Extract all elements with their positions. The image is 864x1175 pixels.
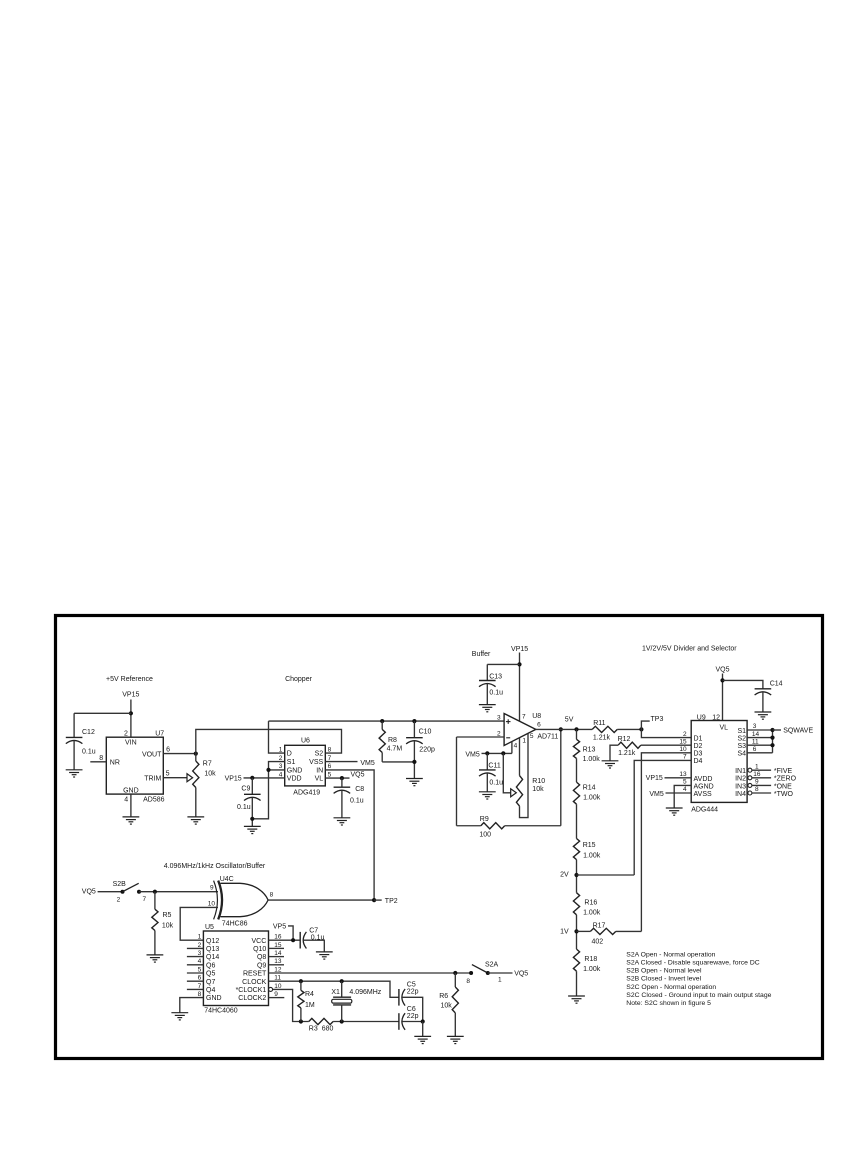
- svg-text:VQ5: VQ5: [514, 971, 528, 978]
- svg-text:6: 6: [753, 746, 757, 753]
- svg-text:CLOCK: CLOCK: [242, 979, 266, 986]
- node R5 junction: [153, 890, 157, 894]
- svg-text:3: 3: [497, 715, 501, 722]
- node VL/C8 junction: [340, 776, 344, 780]
- svg-text:1: 1: [198, 934, 202, 941]
- svg-text:VQ5: VQ5: [351, 771, 365, 778]
- svg-text:TP3: TP3: [651, 716, 664, 723]
- svg-text:R12: R12: [618, 736, 631, 743]
- wire U9 D3 to 1V: [641, 753, 691, 932]
- svg-text:IN2: IN2: [735, 776, 746, 783]
- wire U9 D4 to 2V: [634, 760, 691, 875]
- wire to C14: [723, 680, 763, 688]
- svg-text:1: 1: [279, 747, 283, 754]
- svg-text:AD586: AD586: [143, 797, 165, 804]
- wire 2V to D4 leg: [577, 874, 635, 876]
- minus symbol: [506, 737, 510, 739]
- svg-text:GND: GND: [123, 787, 139, 794]
- svg-text:7: 7: [683, 754, 687, 761]
- wire U6 IN down to TP2: [325, 770, 374, 900]
- svg-text:5: 5: [530, 733, 534, 740]
- node C6/C5 junction: [421, 1019, 425, 1023]
- svg-text:9: 9: [755, 779, 759, 786]
- svg-text:5: 5: [683, 779, 687, 786]
- wire U5 GND pin to ground: [180, 998, 204, 1013]
- svg-text:*ONE: *ONE: [774, 783, 792, 790]
- svg-text:C8: C8: [355, 786, 364, 793]
- wire to C12: [74, 712, 131, 714]
- wire feedback left leg: [456, 737, 458, 826]
- node R4 top junction: [299, 979, 303, 983]
- svg-text:10k: 10k: [441, 1003, 453, 1010]
- svg-text:4.7M: 4.7M: [387, 745, 403, 752]
- svg-text:0.1u: 0.1u: [489, 779, 503, 786]
- svg-text:0.1u: 0.1u: [82, 749, 96, 756]
- *CLOCK1 bubble: [269, 987, 273, 991]
- ground U5: [171, 1013, 188, 1020]
- wire S2 stub: [747, 737, 772, 739]
- svg-text:IN4: IN4: [735, 791, 746, 798]
- svg-text:D2: D2: [694, 743, 703, 750]
- svg-text:VM5: VM5: [360, 760, 375, 767]
- svg-text:8: 8: [328, 747, 332, 754]
- wire U6 GND pin: [269, 769, 285, 771]
- wire TRIM to R7 wiper: [163, 777, 187, 779]
- svg-text:Q4: Q4: [206, 987, 215, 994]
- svg-text:R6: R6: [439, 993, 448, 1000]
- wire S2B to XOR pin9: [139, 891, 218, 893]
- wire VQ5 to U9 VL pin12: [722, 674, 724, 721]
- svg-text:ADG419: ADG419: [293, 790, 320, 797]
- svg-text:74HC86: 74HC86: [222, 921, 248, 928]
- resistor R7 10k: [195, 754, 197, 761]
- IC U6 ADG419 box: [285, 745, 326, 786]
- svg-text:Buffer: Buffer: [472, 651, 491, 658]
- svg-text:9: 9: [210, 885, 214, 892]
- node C10/R8 gnd junction: [412, 760, 416, 764]
- svg-text:S2B Closed - Invert level: S2B Closed - Invert level: [626, 976, 701, 983]
- svg-text:VL: VL: [315, 776, 324, 783]
- testpoint TP3: [641, 721, 649, 729]
- svg-text:VP15: VP15: [122, 692, 139, 699]
- resistor R15 1.00k: [573, 839, 579, 860]
- svg-text:S1: S1: [737, 728, 746, 735]
- ground C13: [479, 705, 496, 712]
- crystal X1 4.096MHz: [341, 981, 343, 997]
- svg-text:10k: 10k: [204, 771, 216, 778]
- node C9/S1 gnd junction: [250, 817, 254, 821]
- svg-text:5: 5: [166, 770, 170, 777]
- svg-text:4.096MHz/1kHz Oscillator/Buffe: 4.096MHz/1kHz Oscillator/Buffer: [164, 863, 266, 870]
- svg-text:U5: U5: [205, 924, 214, 931]
- trimmer R10 10k pins 1-5: [519, 738, 521, 776]
- capacitor C8 0.1u: [341, 778, 343, 787]
- resistor R4 1M: [300, 981, 302, 990]
- svg-text:AVDD: AVDD: [694, 776, 713, 783]
- svg-text:VL: VL: [720, 725, 729, 732]
- svg-text:R11: R11: [593, 720, 605, 727]
- svg-text:S2: S2: [315, 751, 324, 758]
- capacitor C7 0.1u: [299, 932, 301, 949]
- svg-text:CLOCK2: CLOCK2: [238, 995, 266, 1002]
- svg-text:R18: R18: [584, 956, 597, 963]
- capacitor C14: [755, 688, 772, 690]
- node S2 junction: [770, 736, 774, 740]
- node bus/C10 junction: [412, 719, 416, 723]
- node VM5/C11 junction: [485, 751, 489, 755]
- node SQWAVE junction: [770, 728, 774, 732]
- svg-text:C9: C9: [241, 786, 250, 793]
- svg-text:402: 402: [592, 938, 604, 945]
- svg-text:3: 3: [279, 763, 283, 770]
- svg-text:NR: NR: [110, 759, 120, 766]
- svg-text:Q13: Q13: [206, 946, 219, 953]
- svg-text:VOUT: VOUT: [142, 752, 162, 759]
- wire U8 output: [536, 728, 592, 730]
- svg-text:1.00k: 1.00k: [583, 756, 601, 763]
- node bus/R8 junction: [380, 719, 384, 723]
- node 2V junction: [574, 873, 578, 877]
- wire VOUT: [163, 753, 196, 755]
- wire VP15 to AVDD: [665, 777, 692, 779]
- IN2 bubble and stub: [748, 776, 752, 780]
- svg-text:R3: R3: [309, 1026, 318, 1033]
- svg-text:8: 8: [99, 755, 103, 762]
- wire VP15 to U6 VDD: [244, 777, 285, 779]
- svg-text:VM5: VM5: [465, 751, 480, 758]
- svg-text:7: 7: [522, 714, 526, 721]
- svg-text:S2A: S2A: [485, 962, 499, 969]
- op-amp U8 AD711 triangle: [504, 714, 536, 746]
- svg-text:D1: D1: [694, 735, 703, 742]
- capacitor C9 0.1u: [251, 778, 253, 794]
- svg-text:VQ5: VQ5: [82, 888, 96, 895]
- svg-text:Q10: Q10: [253, 946, 266, 953]
- resistor R12 1.21k: [641, 744, 691, 746]
- svg-text:C6: C6: [407, 1006, 416, 1013]
- svg-text:VSS: VSS: [309, 759, 323, 766]
- svg-text:1M: 1M: [305, 1002, 315, 1009]
- capacitor C11 0.1u: [486, 753, 488, 770]
- resistor R8 4.7M: [381, 721, 383, 729]
- svg-text:12: 12: [712, 714, 720, 721]
- svg-text:C10: C10: [419, 729, 432, 736]
- svg-text:S2C Closed - Ground input to m: S2C Closed - Ground input to main output…: [626, 992, 771, 999]
- ground R5: [147, 955, 164, 962]
- node VP5/VCC junction: [291, 938, 295, 942]
- svg-text:7: 7: [143, 896, 147, 903]
- svg-text:Q6: Q6: [206, 962, 215, 969]
- wire TP3 to U9 D1: [641, 729, 691, 737]
- svg-text:0.1u: 0.1u: [311, 935, 325, 942]
- svg-text:4.096MHz: 4.096MHz: [349, 989, 381, 996]
- ground C9: [244, 826, 261, 833]
- svg-text:1.21k: 1.21k: [618, 750, 636, 757]
- node VP15/C13 junction: [517, 662, 521, 666]
- svg-text:4: 4: [124, 797, 128, 804]
- svg-text:*CLOCK1: *CLOCK1: [236, 987, 267, 994]
- svg-text:S2A Closed - Disable squarewav: S2A Closed - Disable squarewave, force D…: [626, 960, 759, 967]
- ground R6: [447, 1036, 464, 1043]
- svg-text:ADG444: ADG444: [691, 807, 718, 814]
- resistor R13 1.00k: [576, 729, 578, 739]
- IN3 bubble and stub: [748, 783, 752, 787]
- svg-text:1.00k: 1.00k: [583, 853, 601, 860]
- U5 right stubs Q10 Q8 Q9: [269, 947, 285, 949]
- svg-text:U9: U9: [697, 714, 706, 721]
- resistor R5 10k: [154, 892, 156, 910]
- svg-text:S2A Open - Normal operation: S2A Open - Normal operation: [626, 951, 715, 958]
- svg-text:VM5: VM5: [649, 791, 664, 798]
- svg-text:VP5: VP5: [273, 923, 286, 930]
- R10 wiper arrow: [511, 789, 517, 797]
- svg-text:X1: X1: [331, 989, 340, 996]
- svg-text:S2: S2: [737, 736, 746, 743]
- svg-text:1.00k: 1.00k: [583, 795, 601, 802]
- svg-text:Chopper: Chopper: [285, 676, 313, 683]
- svg-text:VP15: VP15: [225, 775, 242, 782]
- svg-text:100: 100: [479, 832, 491, 839]
- svg-text:R10: R10: [532, 778, 545, 785]
- svg-text:VP15: VP15: [646, 775, 663, 782]
- resistor R9 100: [457, 825, 481, 827]
- node X1 bottom junction: [340, 1019, 344, 1023]
- node TP2 junction: [372, 898, 376, 902]
- ground C6: [414, 1036, 431, 1043]
- node X1 top junction: [340, 979, 344, 983]
- svg-text:U6: U6: [301, 738, 310, 745]
- node feedback/output junction: [559, 727, 563, 731]
- svg-text:RESET: RESET: [243, 971, 267, 978]
- node VM5/wiper junction: [501, 751, 505, 755]
- svg-text:*ZERO: *ZERO: [774, 776, 797, 783]
- svg-text:13: 13: [679, 771, 687, 778]
- wire U6 VL to VQ5: [325, 777, 349, 779]
- svg-text:10k: 10k: [532, 786, 544, 793]
- svg-text:1: 1: [755, 763, 759, 770]
- svg-text:0.1u: 0.1u: [350, 798, 364, 805]
- svg-text:AVSS: AVSS: [694, 791, 712, 798]
- ground R7: [187, 817, 204, 824]
- svg-text:U8: U8: [532, 713, 541, 720]
- wire chopper output bus to buffer + input: [269, 720, 505, 722]
- svg-text:AD711: AD711: [537, 733, 558, 740]
- svg-text:R5: R5: [163, 912, 172, 919]
- wire VM5 to AVSS: [666, 792, 692, 794]
- node S3 junction: [770, 743, 774, 747]
- svg-text:D3: D3: [694, 751, 703, 758]
- svg-text:C13: C13: [489, 673, 502, 680]
- wire CLOCK2 stub: [269, 997, 285, 999]
- svg-text:TP2: TP2: [385, 898, 398, 905]
- svg-text:Q7: Q7: [206, 979, 215, 986]
- node VOUT/R7: [194, 752, 198, 756]
- wire S2A to VQ5: [488, 972, 513, 974]
- ground C8: [334, 818, 351, 825]
- testpoint TP2 stub: [374, 899, 382, 901]
- ground R12: [602, 761, 619, 768]
- svg-text:16: 16: [753, 771, 761, 778]
- svg-text:VCC: VCC: [252, 938, 267, 945]
- wire RESET to S2A: [269, 972, 472, 974]
- IC U9 ADG444 box: [691, 721, 747, 803]
- wire VCC to C7: [269, 939, 301, 941]
- wire VQ5 to S2B: [98, 891, 123, 893]
- svg-text:C12: C12: [82, 729, 95, 736]
- svg-text:D4: D4: [694, 758, 703, 765]
- svg-text:GND: GND: [206, 995, 222, 1002]
- capacitor C12: [73, 713, 75, 737]
- svg-text:C14: C14: [770, 681, 783, 688]
- svg-text:0.1u: 0.1u: [489, 690, 503, 697]
- node TP3 junction: [639, 727, 643, 731]
- svg-text:GND: GND: [287, 767, 303, 774]
- svg-text:R14: R14: [583, 785, 596, 792]
- svg-text:S2B Open - Normal level: S2B Open - Normal level: [626, 968, 702, 975]
- IN1 bubble and stub: [748, 768, 752, 772]
- svg-text:1V: 1V: [560, 928, 569, 935]
- wire S3 stub: [747, 744, 772, 746]
- wire VP5 elbow: [288, 926, 293, 940]
- resistor R17 402: [577, 930, 591, 932]
- svg-text:*TWO: *TWO: [774, 791, 794, 798]
- ground C11: [479, 792, 496, 799]
- svg-text:S2B: S2B: [113, 881, 127, 888]
- wire S4 stub: [747, 752, 772, 754]
- svg-text:R13: R13: [583, 747, 596, 754]
- svg-text:2: 2: [279, 755, 283, 762]
- capacitor C6 22p: [398, 1013, 400, 1030]
- wire VM5 to U8 pin4: [482, 752, 512, 754]
- wire SQWAVE stub: [773, 729, 782, 731]
- svg-text:8: 8: [270, 892, 274, 899]
- IC U5 74HC4060 box: [203, 931, 268, 1006]
- resistor R16 1.00k: [573, 893, 579, 915]
- svg-text:Q14: Q14: [206, 954, 219, 961]
- svg-text:U4C: U4C: [220, 876, 234, 883]
- svg-text:74HC4060: 74HC4060: [204, 1007, 238, 1014]
- svg-text:22p: 22p: [407, 1013, 419, 1020]
- svg-text:14: 14: [752, 731, 760, 738]
- svg-text:IN1: IN1: [735, 768, 746, 775]
- border frame: [56, 616, 823, 1059]
- svg-text:11: 11: [752, 738, 759, 745]
- wire to C13: [487, 663, 519, 665]
- svg-text:5V: 5V: [565, 716, 574, 723]
- svg-text:1V/2V/5V Divider and Selector: 1V/2V/5V Divider and Selector: [642, 646, 737, 653]
- svg-text:2: 2: [497, 730, 501, 737]
- svg-text:2: 2: [117, 896, 121, 903]
- wire R10 wiper: [503, 753, 510, 792]
- wire U6 S1 to analog gnd bus: [252, 762, 284, 819]
- svg-text:VP15: VP15: [511, 646, 528, 653]
- svg-text:680: 680: [322, 1025, 334, 1032]
- wire *CLOCK1 to R3/C6: [273, 989, 309, 1021]
- svg-text:8: 8: [755, 786, 759, 793]
- wire feedback right leg: [560, 729, 562, 825]
- wire VOUT to U6 S2 (5V to chopper): [196, 729, 342, 753]
- svg-text:R4: R4: [305, 991, 314, 998]
- svg-text:C11: C11: [488, 763, 500, 770]
- svg-text:15: 15: [679, 738, 687, 745]
- pin 8 NR stub: [90, 761, 106, 763]
- resistor R11 1.21k: [592, 726, 617, 732]
- svg-text:Note: S2C shown in figure 5: Note: S2C shown in figure 5: [626, 1000, 711, 1007]
- svg-text:2: 2: [124, 731, 128, 738]
- ground U7: [123, 817, 140, 824]
- svg-text:VQ5: VQ5: [715, 666, 729, 673]
- svg-text:S1: S1: [287, 759, 296, 766]
- svg-text:1.21k: 1.21k: [593, 734, 611, 741]
- svg-text:AGND: AGND: [694, 783, 714, 790]
- op IC U7 AD586 box: [106, 737, 163, 794]
- node 1V junction: [574, 929, 578, 933]
- svg-text:Q5: Q5: [206, 971, 215, 978]
- wire C6 to ground: [422, 1022, 424, 1037]
- wire VP15 to U8 pin7: [519, 653, 521, 722]
- ground C10: [406, 779, 423, 786]
- ground C7: [316, 952, 333, 959]
- svg-text:10: 10: [679, 746, 687, 753]
- node 5V junction: [574, 727, 578, 731]
- resistor R18 1.00k: [573, 949, 579, 971]
- svg-text:VDD: VDD: [287, 776, 302, 783]
- svg-text:TRIM: TRIM: [144, 775, 161, 782]
- svg-text:8: 8: [466, 978, 470, 985]
- wire CLOCK to C5: [269, 981, 399, 997]
- resistor R6 10k: [454, 973, 456, 987]
- U5 left stubs pins 2-7: [187, 947, 204, 949]
- svg-text:6: 6: [166, 747, 170, 754]
- node R6 junction: [453, 971, 457, 975]
- svg-text:R9: R9: [480, 816, 489, 823]
- svg-text:S3: S3: [737, 743, 746, 750]
- svg-text:D: D: [287, 751, 292, 758]
- wire R8 bottom to C10: [382, 761, 414, 763]
- wire U7 GND: [130, 794, 132, 817]
- svg-text:22p: 22p: [407, 988, 419, 995]
- ground AGND: [666, 808, 683, 815]
- svg-text:R16: R16: [584, 900, 597, 907]
- wire U6 VSS to VM5: [325, 761, 357, 763]
- svg-text:1.00k: 1.00k: [583, 910, 601, 917]
- ground C12: [66, 770, 83, 777]
- svg-text:0.1u: 0.1u: [237, 804, 251, 811]
- svg-text:R15: R15: [583, 842, 596, 849]
- svg-text:IN3: IN3: [735, 783, 746, 790]
- svg-text:1: 1: [498, 977, 502, 984]
- wire VP15 to U7 VIN: [130, 700, 132, 738]
- svg-text:Q9: Q9: [257, 962, 266, 969]
- node R4 bottom junction: [299, 1019, 303, 1023]
- IN4 bubble and stub: [748, 791, 752, 795]
- wire XOR pin10 to U5 Q12: [180, 907, 218, 940]
- capacitor C13 0.1u: [486, 664, 488, 680]
- svg-text:S4: S4: [737, 751, 746, 758]
- svg-text:VIN: VIN: [125, 740, 137, 747]
- wire U6 D pin to bus: [269, 721, 285, 753]
- svg-text:10k: 10k: [162, 923, 174, 930]
- svg-text:2V: 2V: [560, 872, 569, 879]
- svg-text:6: 6: [537, 722, 541, 729]
- ground C14: [755, 712, 772, 719]
- svg-text:1.00k: 1.00k: [583, 966, 601, 973]
- wire S bus vertical: [772, 730, 774, 753]
- svg-text:4: 4: [683, 786, 687, 793]
- svg-text:220p: 220p: [419, 746, 435, 753]
- svg-text:6: 6: [328, 763, 332, 770]
- resistor R14 1.00k: [573, 782, 579, 804]
